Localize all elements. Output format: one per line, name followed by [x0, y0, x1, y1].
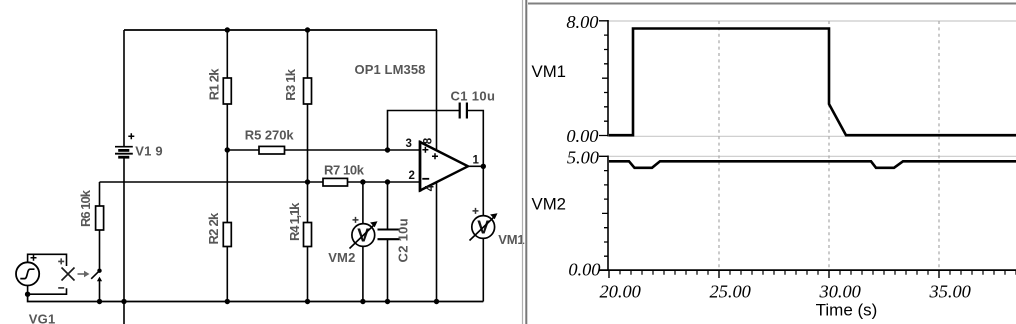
wire VG1 minus link: [28, 286, 67, 295]
pin 4: [425, 184, 437, 191]
wire pin3 net: [227, 149, 259, 151]
svg-text:8: 8: [423, 137, 435, 144]
svg-text:R5 270k: R5 270k: [245, 127, 295, 142]
svg-text:25.00: 25.00: [710, 282, 751, 302]
capacitor C2: [378, 218, 411, 262]
wire R5 to op-amp: [285, 149, 421, 151]
node VG1 minus: [25, 292, 30, 297]
chart top border: [528, 3, 1016, 5]
label OP1 LM358: [355, 62, 426, 77]
svg-text:R7 10k: R7 10k: [324, 163, 365, 178]
wire output stub: [468, 165, 483, 167]
node rail VM2: [360, 299, 365, 304]
wire C2 column: [387, 182, 389, 302]
svg-text:1: 1: [473, 155, 480, 167]
node rail V1: [121, 299, 126, 304]
op-amp OP1: [420, 141, 468, 192]
ground stem: [123, 302, 125, 324]
svg-text:VM1: VM1: [532, 62, 567, 81]
voltmeter VM2: [350, 217, 378, 249]
chart grid horizontal: [608, 21, 1016, 156]
chart trace VM2: [609, 161, 1016, 168]
svg-text:35.00: 35.00: [929, 282, 971, 302]
pin 3: [406, 138, 412, 150]
switch control X: [58, 258, 89, 288]
svg-text:5.00: 5.00: [567, 148, 599, 168]
svg-text:8.00: 8.00: [566, 12, 598, 32]
resistor R4: [287, 202, 312, 247]
node rail R4: [305, 299, 310, 304]
svg-text:OP1 LM358: OP1 LM358: [355, 62, 426, 77]
wire R1 column: [226, 30, 228, 223]
pin 2: [409, 170, 415, 182]
node rail pin4: [434, 299, 439, 304]
op-amp input marks: [422, 147, 438, 179]
chart x-axis: [599, 270, 1016, 278]
label VM1: [498, 232, 524, 247]
svg-text:VM1: VM1: [498, 232, 524, 247]
svg-text:R6 10k: R6 10k: [78, 189, 93, 227]
voltmeter VM1: [470, 208, 498, 241]
wire feedback: [388, 111, 460, 151]
wire pin8 supply: [436, 30, 438, 150]
chart y labels: [566, 12, 600, 280]
chart curve label VM1: [532, 62, 567, 81]
wire R3 column: [307, 30, 309, 223]
chart axis title Time (s): [816, 300, 878, 319]
resistor R1: [206, 68, 231, 104]
node C2 top: [385, 179, 390, 184]
node rail R2: [225, 299, 230, 304]
svg-text:R4 1,1k: R4 1,1k: [287, 202, 302, 241]
wire R2 bottom: [226, 247, 228, 302]
chart curve label VM2: [532, 194, 567, 213]
svg-text:C2 10u: C2 10u: [396, 218, 411, 262]
svg-text:VM2: VM2: [328, 250, 355, 265]
svg-text:VG1: VG1: [29, 312, 56, 324]
switch blade: [91, 269, 102, 302]
pin 1: [473, 155, 480, 167]
svg-text:VM2: VM2: [532, 194, 567, 213]
node VM2 top: [360, 179, 365, 184]
svg-text:R1 2k: R1 2k: [206, 68, 221, 100]
node top R1: [225, 27, 230, 32]
svg-text:R3 1k: R3 1k: [283, 68, 298, 100]
resistor R7: [323, 163, 365, 186]
chart trace VM1: [609, 29, 1016, 136]
wire pin4 supply: [436, 182, 438, 302]
battery V1: [115, 133, 134, 157]
svg-text:R2 2k: R2 2k: [206, 212, 221, 244]
wire VM1 column: [482, 166, 484, 301]
svg-text:C1 10u: C1 10u: [451, 88, 496, 103]
resistor R2: [206, 212, 232, 246]
svg-text:4: 4: [425, 184, 437, 191]
chart VM1 y-axis: [599, 20, 608, 136]
node R5 junction: [225, 147, 230, 152]
chart x labels: [600, 282, 971, 302]
wire C1 to output: [468, 111, 484, 167]
label VM2: [328, 250, 355, 265]
node rail switch: [97, 299, 102, 304]
generator VG1: [16, 255, 39, 286]
label V1 9: [135, 143, 163, 158]
svg-text:3: 3: [406, 138, 412, 150]
wire V1 column: [123, 30, 125, 302]
svg-text:V1 9: V1 9: [135, 143, 163, 158]
svg-text:Time (s): Time (s): [816, 300, 878, 319]
node output: [481, 164, 486, 169]
resistor R6: [78, 189, 104, 230]
svg-text:0.00: 0.00: [566, 126, 598, 146]
wire VG1 plus bracket: [28, 254, 67, 266]
node top R3: [305, 27, 310, 32]
wire R6 column: [99, 182, 101, 271]
wire VM2 column: [362, 182, 364, 302]
chart grid vertical dashed: [719, 21, 939, 270]
node rail C2: [385, 299, 390, 304]
svg-text:30.00: 30.00: [819, 282, 861, 302]
wire top rail: [124, 29, 437, 31]
svg-text:2: 2: [409, 170, 415, 182]
resistor R3: [283, 68, 312, 104]
node feedback junction: [385, 147, 390, 152]
wire R7 to op-amp: [348, 181, 421, 183]
chart VM2 y-axis: [599, 156, 608, 271]
resistor R5: [245, 127, 295, 154]
capacitor C1: [451, 88, 496, 118]
label VG1: [29, 312, 56, 324]
ground rail: [28, 294, 484, 302]
pane divider: [523, 0, 527, 324]
pin 8: [423, 137, 435, 144]
node R4 top: [305, 179, 310, 184]
svg-text:0.00: 0.00: [568, 260, 600, 280]
wire R4 bottom: [307, 247, 309, 302]
svg-text:20.00: 20.00: [600, 282, 641, 302]
wire pin2 net left: [100, 181, 324, 183]
